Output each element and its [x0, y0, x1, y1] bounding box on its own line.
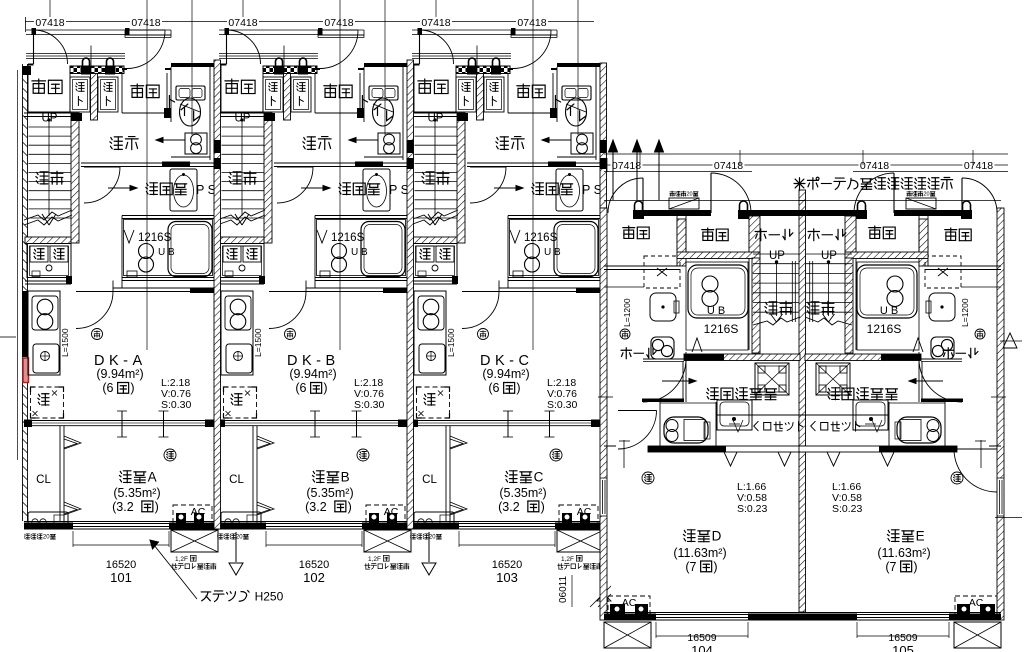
unit 105 entrance outer wall segment [894, 210, 962, 216]
unit 104 inner entrance door [710, 173, 712, 213]
unit 102 stairs label [229, 172, 241, 184]
svg-text:U B: U B [351, 247, 368, 258]
unit 101 toilet fixture [176, 86, 205, 100]
unit 102 smoke detector mark [357, 449, 369, 461]
unit 103 UB bathtub [554, 222, 598, 277]
unit 103 outdoor AC unit [557, 530, 604, 552]
svg-text:20: 20 [924, 192, 930, 198]
unit 101 smoke detector mark [164, 449, 176, 461]
svg-text:(3.2: (3.2 [498, 500, 520, 514]
unit 101 kitchen counter [28, 291, 60, 375]
svg-text:102: 102 [303, 570, 325, 585]
unit 104 bedroom door [618, 410, 657, 412]
unit 105 hall washbasin [929, 293, 955, 321]
unit 104 heater mark [620, 329, 630, 339]
unit 101 section marker corridor [156, 139, 185, 141]
unit 102 bedroom labels [312, 471, 324, 483]
unit 103 laundry room [411, 237, 457, 244]
svg-text:1216S: 1216S [331, 232, 365, 244]
svg-text:): ) [348, 500, 352, 514]
unit 104 section marker washroom [662, 380, 696, 382]
svg-text:CL: CL [36, 474, 51, 486]
svg-text:20: 20 [429, 535, 436, 541]
unit 103 PS shaft [571, 133, 593, 154]
unit 103 stairs label [422, 172, 434, 184]
unit 101 water heater label [24, 534, 29, 539]
unit 105 porch vents [963, 201, 971, 210]
unit 105 dim stub below WC [980, 440, 982, 468]
unit 105 closet strip [799, 414, 889, 416]
unit 104 storage X box [644, 256, 680, 288]
svg-text:L=1500: L=1500 [60, 328, 70, 357]
unit 105 hall toilet [931, 337, 954, 359]
svg-text:101: 101 [110, 570, 132, 585]
svg-text:1216S: 1216S [138, 232, 172, 244]
unit 102 2F-entrance door (swing) [225, 28, 230, 35]
unit 102 shoe cabinet A [263, 77, 283, 112]
unit 102 kitchen counter [221, 291, 253, 375]
unit 102 bottom wall with window [217, 521, 413, 523]
svg-text:A: A [148, 470, 157, 485]
svg-text:P S: P S [582, 183, 602, 197]
svg-text:UP: UP [42, 113, 58, 125]
unit 105 bedroom top wall [989, 445, 1001, 447]
unit 105 storage X box [925, 256, 961, 288]
unit 102 kitchen burners [225, 296, 251, 330]
svg-text:): ) [541, 500, 545, 514]
black wall fill at kitchen zone [22, 291, 29, 357]
unit 102 genkan-2F room outline [220, 64, 222, 112]
svg-text:(9.94m²): (9.94m²) [96, 367, 143, 381]
svg-text:06011: 06011 [558, 575, 569, 603]
unit 101 porch divider line [90, 46, 92, 74]
unit 104 closet label and bifold marks [754, 421, 758, 430]
unit 104 closet strip [716, 414, 806, 416]
unit 101 genkan-1F label [131, 84, 144, 97]
unit 102 stair break line [217, 210, 265, 220]
unit 102 shoe cabinet B [291, 77, 311, 112]
svg-text:(11.63m²): (11.63m²) [673, 546, 726, 560]
svg-text:U B: U B [544, 247, 561, 258]
unit 105 stair walk line [828, 262, 830, 316]
unit 105 washroom door [919, 358, 962, 360]
svg-text:07418: 07418 [324, 17, 353, 29]
unit 105 washroom vanity [853, 400, 888, 430]
svg-text:(3.2: (3.2 [305, 500, 327, 514]
unit 103 porch top edge lines [412, 29, 557, 31]
svg-text:UP: UP [821, 250, 837, 262]
svg-text:L=1500: L=1500 [446, 328, 456, 357]
svg-text:): ) [913, 560, 917, 574]
svg-text:(11.63m²): (11.63m²) [877, 546, 930, 560]
unit 103 washroom label [532, 183, 544, 195]
unit 105 closet label and bifold marks [811, 421, 815, 430]
unit 103 stairwell walls [410, 112, 457, 114]
unit 105 genkan walls [927, 216, 929, 252]
unit 101 washroom label [146, 183, 158, 195]
unit 104 washroom door [643, 358, 686, 360]
unit 102 DK/bedroom sliding partition [217, 420, 407, 422]
unit 104 smoke detector [642, 472, 654, 484]
unit 103 refrigerator space [417, 387, 450, 418]
unit 105 heater mark [975, 329, 985, 339]
svg-text:(5.35m²): (5.35m²) [113, 486, 160, 500]
unit 104 washing machine pan [755, 363, 789, 395]
svg-text:U B: U B [880, 305, 898, 317]
unit 104 water heater on porch [669, 198, 699, 209]
down arrow below unit 101/102 boundary [235, 532, 237, 562]
unit 102 DK entry wall and door [306, 287, 383, 289]
unit 101 vent-wall (checkered) between entrances [70, 66, 124, 74]
unit 102 UB door marks [317, 230, 327, 243]
unit 102 entry porch canopy over 1F genkan [318, 34, 364, 36]
left building outer left wall [17, 70, 19, 460]
svg-text:07418: 07418 [228, 17, 257, 29]
unit 101 toilet room walls [171, 63, 214, 67]
unit 105 water heater on porch [906, 198, 936, 209]
unit 101 kitchen sink [33, 344, 59, 373]
unit 103 UB washing stool circles [525, 244, 540, 259]
svg-text:E: E [916, 529, 925, 544]
svg-text:S:0.23: S:0.23 [832, 503, 863, 515]
unit 104 entrance outer wall segment [643, 210, 711, 216]
unit 102 stair run line and arrow [241, 119, 243, 216]
unit 101 UB door marks [124, 230, 134, 243]
unit 101 UB bathroom walls [122, 215, 214, 217]
unit 102 vent-wall (checkered) between entrances [263, 66, 317, 74]
right building right outer wall [997, 208, 1004, 620]
unit 104 stair treads [753, 253, 799, 255]
unit 103 AC indoor black units [562, 513, 572, 528]
unit 101 AC indoor black units [176, 513, 186, 528]
svg-text:(7: (7 [685, 560, 696, 574]
unit 102 stairwell walls [217, 112, 264, 114]
svg-text:): ) [516, 381, 520, 395]
svg-text:): ) [323, 381, 327, 395]
unit 102 AC indoor black units [369, 513, 379, 528]
unit 103 1F-entrance door (swing) [511, 28, 516, 35]
unit 101 outdoor AC unit [171, 530, 218, 552]
unit 103 kitchen counter [414, 291, 446, 375]
unit 101 window dimension [72, 531, 74, 547]
unit 101 grid lines [146, 0, 148, 350]
unit 101 shoe cabinet B [98, 77, 118, 112]
unit 101 air vent symbols [83, 58, 90, 66]
svg-text:1216S: 1216S [524, 232, 558, 244]
unit 101 UB bathtub [168, 222, 212, 277]
eave line above right building dimension row [604, 153, 1008, 155]
svg-text:20: 20 [43, 535, 50, 541]
svg-text:(5.35m²): (5.35m²) [499, 486, 546, 500]
unit 104 washroom label [707, 388, 719, 400]
bedroom E labels [887, 530, 899, 542]
unit 101 shoe cabinet A [70, 77, 90, 112]
unit 102 kitchen sink [226, 344, 252, 373]
porch note text [794, 178, 805, 189]
unit 103 section marker corridor [542, 139, 571, 141]
unit 105 inner entrance door [893, 173, 895, 213]
unit 102 section marker washroom [301, 187, 330, 189]
unit 103 toilet label [555, 96, 560, 108]
unit 104 porch vents [635, 201, 643, 210]
svg-text:P S: P S [196, 183, 216, 197]
svg-text:L=1200: L=1200 [622, 298, 632, 327]
left wall corner post [22, 66, 31, 75]
unit 103 porch divider line [476, 46, 478, 74]
svg-text:CL: CL [422, 474, 437, 486]
unit 103 corridor label [496, 137, 508, 150]
svg-text:D: D [712, 529, 722, 544]
unit 105 smoke detector [951, 472, 963, 484]
svg-text:07418: 07418 [964, 160, 993, 172]
unit 104 hall toilet [651, 337, 674, 359]
unit 102 section marker corridor [349, 139, 378, 141]
unit 103 air vent symbols [469, 58, 476, 66]
unit 102 air vent symbols [276, 58, 283, 66]
svg-text:103: 103 [496, 570, 518, 585]
svg-text:07418: 07418 [860, 160, 889, 172]
svg-text:(6: (6 [488, 381, 499, 395]
unit 104 outer entrance door [642, 178, 644, 213]
unit 101 DK entry wall and door [113, 287, 190, 289]
svg-text:L=1200: L=1200 [960, 298, 970, 327]
unit 103 section marker washroom [494, 187, 523, 189]
svg-text:1,2F: 1,2F [175, 556, 188, 563]
unit 103 stair treads [415, 126, 458, 128]
unit 101 section marker washroom [108, 187, 137, 189]
unit 101 stair treads [29, 126, 72, 128]
right building left outer wall [600, 208, 607, 620]
left building top dimension line [25, 21, 594, 23]
svg-text:CL: CL [229, 474, 244, 486]
room labels right building [623, 226, 635, 238]
unit 103 stair run line and arrow [434, 119, 436, 216]
unit 102 window dimension [265, 531, 267, 547]
unit 102 toilet room walls [364, 63, 407, 67]
svg-text:): ) [130, 381, 134, 395]
unit 102 AC space dashed [366, 505, 405, 527]
unit 104 AC space [608, 596, 650, 617]
unit 102 genkan-1F label [324, 84, 337, 97]
unit 105 washing machine pan [816, 363, 850, 395]
down arrow below unit 102/103 boundary [428, 532, 430, 562]
unit 102 toilet label [362, 96, 367, 108]
unit 101 laundry room [25, 237, 71, 244]
unit 103 genkan-2F room outline [413, 64, 415, 112]
unit 105 outer entrance door [961, 178, 963, 213]
unit 101 washroom vanity [170, 169, 197, 211]
right outer wall of left building [600, 63, 607, 208]
unit 104 genkan walls [676, 216, 678, 252]
unit 103 kitchen burners [418, 296, 444, 330]
unit 102 porch divider line [283, 46, 285, 74]
unit 105 AC space [955, 596, 997, 617]
unit 103 window dimension [458, 531, 460, 547]
svg-text:1216S: 1216S [867, 322, 902, 336]
unit 104 bottom wall window [604, 612, 806, 614]
unit 104 dim stub below WC [623, 440, 625, 468]
unit 103 shoe cabinet B [484, 77, 504, 112]
unit 101 bottom wall with window [24, 521, 220, 523]
unit 102 porch top edge lines [219, 29, 364, 31]
svg-text:(9.94m²): (9.94m²) [482, 367, 529, 381]
svg-text:07418: 07418 [714, 160, 743, 172]
unit 101 bedroom labels [119, 471, 131, 483]
unit 103 UB door marks [510, 230, 520, 243]
unit 104 stair hall walls [748, 210, 750, 216]
unit 102 outdoor AC unit [364, 530, 411, 552]
svg-text:): ) [713, 560, 717, 574]
unit 104 UB room [677, 252, 760, 259]
unit 101 refrigerator space [31, 387, 64, 418]
unit 101 stairs label [36, 172, 48, 184]
unit 102 water heater label [217, 534, 222, 539]
unit 101 entry porch canopy over 1F genkan [125, 34, 171, 36]
unit 101 corridor/washroom wall [81, 162, 214, 164]
svg-text:P S: P S [389, 183, 409, 197]
unit 103 water heater in closet [414, 512, 454, 526]
svg-text:105: 105 [892, 643, 914, 652]
unit 101 DK/bedroom sliding partition [24, 420, 214, 422]
up arrows at left of right building [609, 140, 618, 152]
svg-text:B: B [341, 470, 350, 485]
unit 104 washroom vanity [717, 400, 752, 430]
step height callout [150, 540, 197, 599]
unit 105 UB room [845, 252, 928, 259]
unit 104 washroom walls [643, 361, 684, 363]
unit 104 stair walk line [776, 262, 778, 316]
svg-text:07418: 07418 [517, 17, 546, 29]
entrance canopy lines [604, 171, 752, 173]
unit 101 partition wall between entrances [91, 74, 98, 121]
unit 101 2F-entrance door (swing) [32, 28, 37, 35]
party wall between 104 and 105 [799, 190, 806, 612]
right building dimension line [606, 164, 1008, 166]
unit 101 stair break line [24, 210, 72, 220]
svg-text:H250: H250 [255, 589, 284, 603]
unit 101 PS shaft [185, 133, 207, 154]
unit 105 washroom walls [921, 361, 962, 363]
unit 102 1F-entrance door (swing) [318, 28, 323, 35]
svg-text:C: C [534, 470, 544, 485]
unit 103 entry porch canopy over 1F genkan [511, 34, 557, 36]
unit 105 bedroom door [954, 448, 997, 450]
unit 101 closet [59, 426, 61, 521]
unit 103 bedroom labels [505, 471, 517, 483]
unit 101 washroom door swing [84, 166, 120, 168]
unit 103 2F-entrance door (swing) [418, 28, 423, 35]
left edge reference line [0, 336, 16, 338]
unit 101 kitchen burners [32, 296, 58, 330]
right edge level mark [1000, 340, 1022, 342]
svg-text:104: 104 [691, 643, 713, 652]
red highlighted wall segment [23, 358, 29, 383]
unit 102 stair treads [222, 126, 265, 128]
unit 104 WC room [659, 402, 661, 446]
unit 105 WC room [944, 402, 946, 446]
svg-text:S:0.23: S:0.23 [737, 503, 768, 515]
unit 102 refrigerator space [224, 387, 257, 418]
unit 103 washroom door swing [470, 166, 506, 168]
svg-text:(5.35m²): (5.35m²) [306, 486, 353, 500]
unit 103 corridor/washroom wall [467, 162, 600, 164]
unit 101 stairwell walls [24, 112, 71, 114]
svg-text:UP: UP [428, 113, 444, 125]
unit 103 vent-wall (checkered) between entrances [456, 66, 510, 74]
unit 103 bottom wall with window [410, 521, 606, 523]
bedroom D labels [683, 530, 695, 542]
unit 101 genkan-2F label [32, 79, 46, 93]
unit 103 kitchen sink [419, 344, 445, 373]
unit 103 stair break line [410, 210, 458, 220]
svg-text:(6: (6 [295, 381, 306, 395]
unit 105 washroom label [828, 388, 840, 400]
svg-text:(7: (7 [885, 560, 896, 574]
party wall between units 101/102 [214, 60, 221, 529]
unit 102 genkan-2F label [225, 79, 239, 93]
unit 102 corridor/washroom wall [274, 162, 407, 164]
unit 101 water heater in closet [28, 512, 68, 526]
unit 105 stair treads [806, 253, 852, 255]
unit 103 grid lines [532, 0, 534, 350]
svg-text:U B: U B [707, 305, 725, 317]
svg-text:(9.94m²): (9.94m²) [289, 367, 336, 381]
svg-text:20: 20 [687, 192, 693, 198]
unit 103 UB bathroom walls [508, 215, 600, 217]
unit 105 stair break [805, 317, 852, 325]
svg-text:1,2F: 1,2F [368, 556, 381, 563]
unit 102 partition wall between entrances [284, 74, 291, 121]
unit 101 heater mark [92, 329, 103, 340]
svg-text:1216S: 1216S [704, 322, 739, 336]
unit 105 outdoor AC unit [954, 622, 1001, 648]
unit 103 DK entry wall and door [499, 287, 576, 289]
unit 103 smoke detector mark [550, 449, 562, 461]
unit 102 water heater in closet [221, 512, 261, 526]
unit 102 washroom label [339, 183, 351, 195]
svg-text:S:0.30: S:0.30 [547, 399, 578, 411]
unit 101 stair run line and arrow [48, 119, 50, 216]
svg-text:1,2F: 1,2F [561, 556, 574, 563]
unit 103 water heater label [410, 534, 415, 539]
unit 101 toilet label [169, 96, 174, 108]
svg-text:L=1500: L=1500 [253, 328, 263, 357]
unit 103 toilet fixture [562, 86, 591, 100]
unit 104 outdoor AC unit [604, 622, 651, 648]
unit 101 genkan-1F floor outline [121, 73, 123, 113]
unit 103 genkan-2F label [418, 79, 432, 93]
svg-text:(3.2: (3.2 [112, 500, 134, 514]
unit 102 UB bathroom walls [315, 215, 407, 217]
unit 103 toilet room walls [557, 63, 600, 67]
unit 102 closet [252, 426, 254, 521]
svg-text:(6: (6 [102, 381, 113, 395]
unit 103 genkan-1F floor outline [507, 73, 509, 113]
svg-text:20: 20 [236, 535, 243, 541]
svg-text:UP: UP [235, 113, 251, 125]
unit 104 hall washbasin [650, 293, 676, 321]
svg-text:07418: 07418 [421, 17, 450, 29]
svg-text:UP: UP [769, 250, 785, 262]
unit 102 UB bathtub [361, 222, 405, 277]
svg-text:S:0.30: S:0.30 [354, 399, 385, 411]
unit 102 washroom door swing [277, 166, 313, 168]
party wall between units 102/103 [407, 60, 414, 529]
unit 103 genkan-1F label [517, 84, 530, 97]
unit 103 shoe cabinet A [456, 77, 476, 112]
unit 101 genkan-2F room outline [27, 64, 29, 112]
unit 101 corridor label [110, 137, 122, 150]
